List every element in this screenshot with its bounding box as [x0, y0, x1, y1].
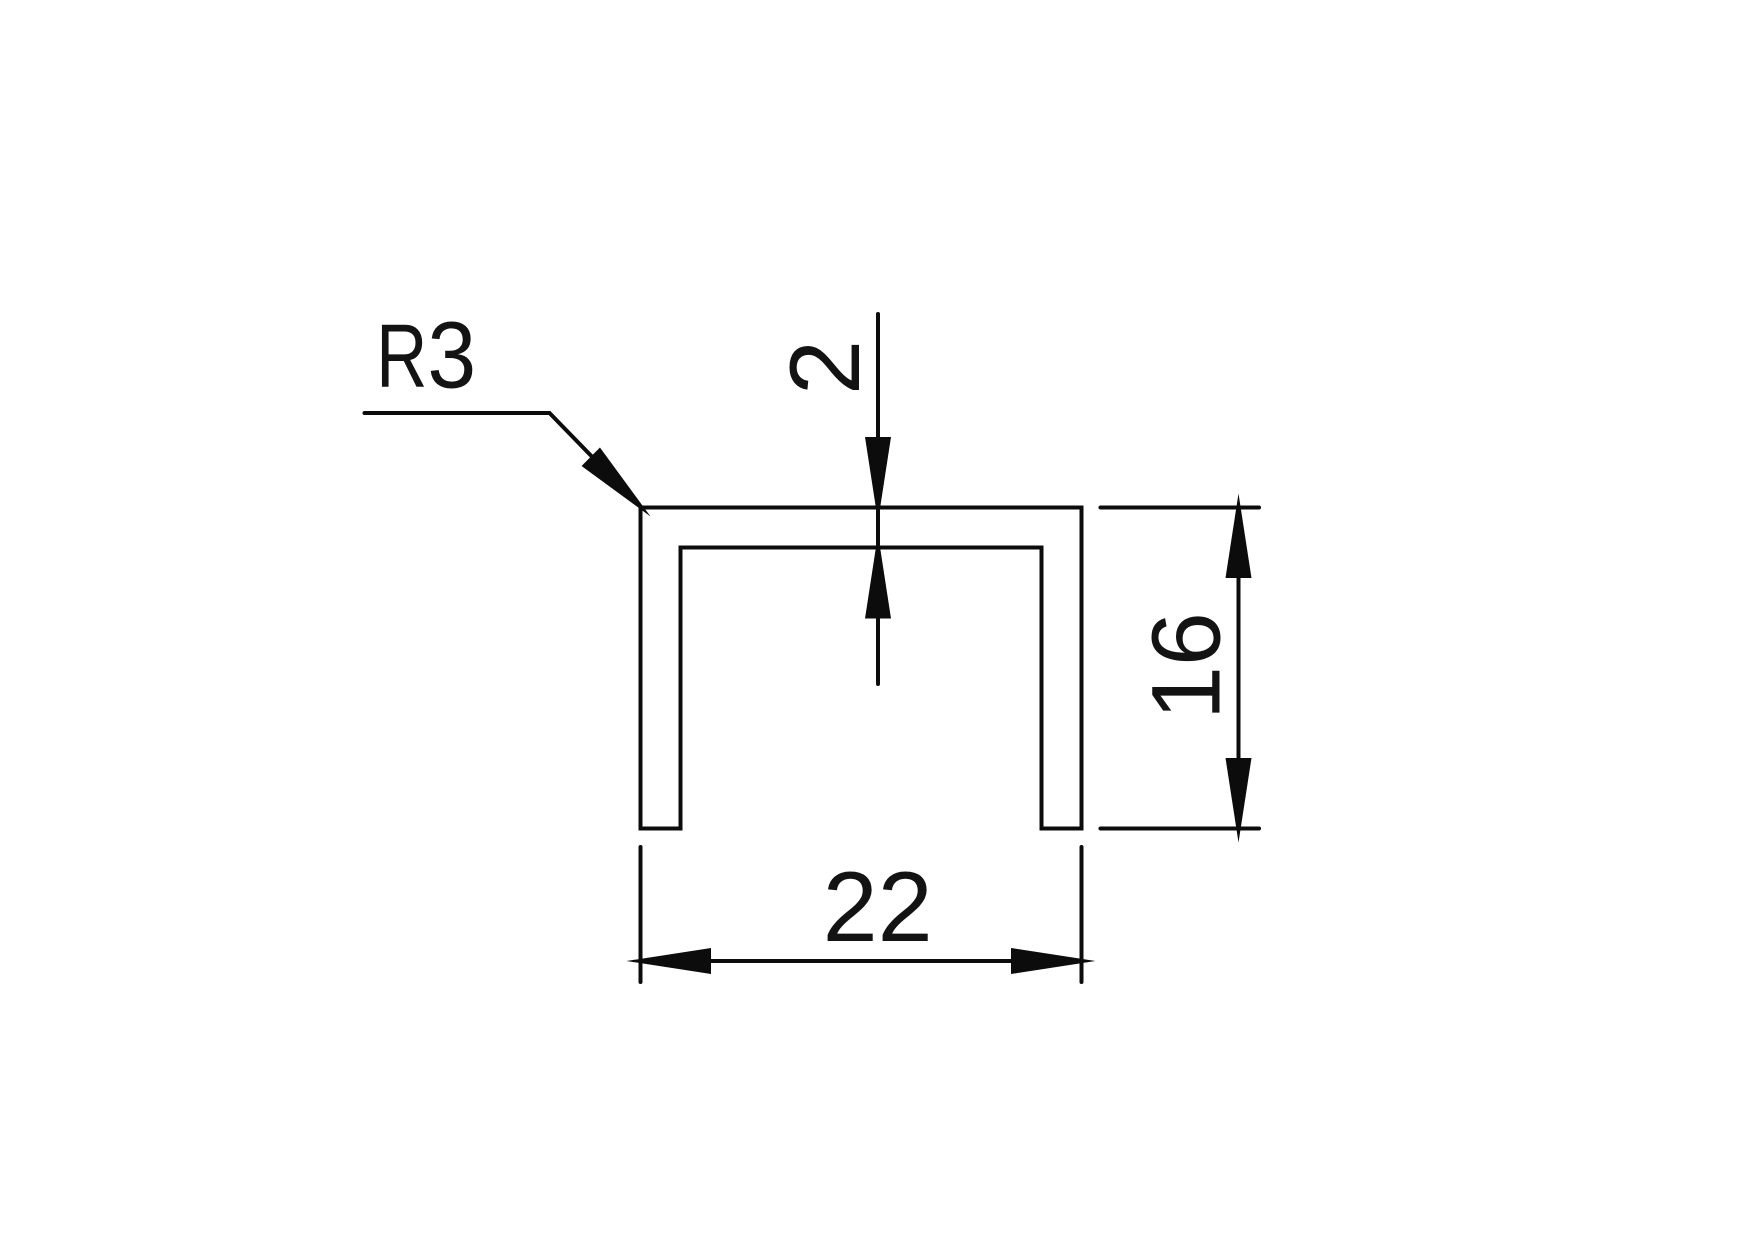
- height dim arrow up: [1226, 494, 1252, 579]
- radius leader arrow: [582, 448, 651, 517]
- thickness dim arrow down: [865, 437, 891, 522]
- svg-text:2: 2: [769, 340, 880, 395]
- svg-text:22: 22: [823, 851, 933, 962]
- svg-text:3: 3: [427, 302, 476, 408]
- height dimension line (16): [1237, 578, 1241, 758]
- width dim extension line left: [639, 847, 643, 982]
- U-channel profile outline: [641, 508, 1082, 829]
- width dim arrow left: [627, 948, 712, 974]
- thickness dim arrow up: [865, 534, 891, 619]
- svg-text:R: R: [376, 307, 427, 407]
- height dim arrow down: [1226, 758, 1252, 843]
- height dim extension line bottom: [1101, 827, 1260, 831]
- height dim extension line top: [1101, 506, 1260, 510]
- svg-text:16: 16: [1132, 612, 1241, 720]
- radius leader line R3: [365, 413, 642, 507]
- width dim arrow right: [1011, 948, 1096, 974]
- thickness dimension line (2): [876, 314, 880, 684]
- width dimension line (22): [711, 959, 1011, 963]
- width dim extension line right: [1080, 847, 1084, 982]
